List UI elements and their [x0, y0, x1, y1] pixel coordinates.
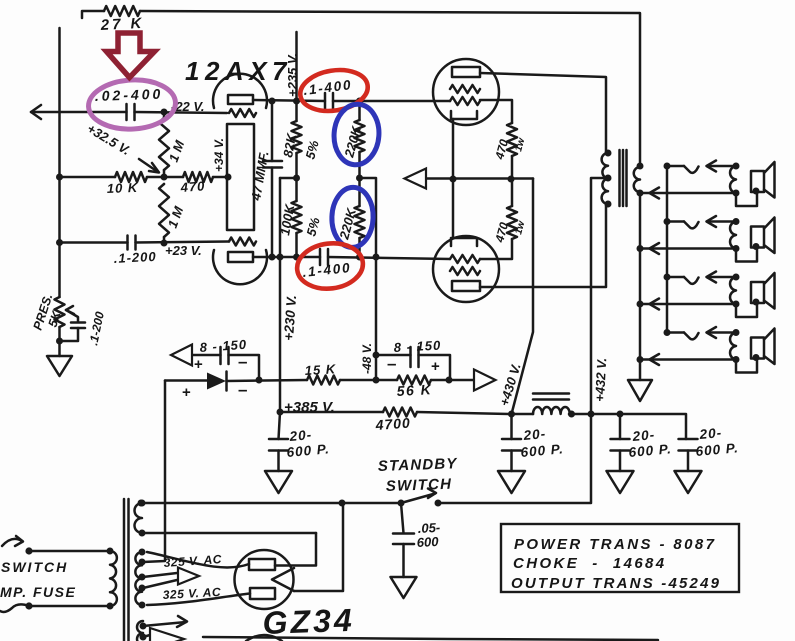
svg-text:-48 V.: -48 V. [360, 343, 374, 374]
svg-text:20-: 20- [522, 426, 547, 443]
svg-text:+385 V.: +385 V. [284, 399, 335, 416]
svg-text:+: + [182, 384, 191, 401]
svg-text:10 K: 10 K [107, 180, 140, 196]
svg-text:8 - 150: 8 - 150 [393, 338, 441, 355]
svg-text:–: – [238, 380, 247, 399]
svg-text:20-: 20- [698, 425, 723, 442]
svg-text:–: – [238, 352, 247, 371]
svg-text:20-: 20- [288, 427, 313, 444]
svg-text:+235 V.: +235 V. [285, 53, 300, 97]
svg-text:OUTPUT TRANS -45249: OUTPUT TRANS -45249 [511, 575, 721, 592]
svg-text:15 K: 15 K [304, 361, 337, 378]
svg-text:+34 V.: +34 V. [212, 138, 226, 172]
svg-text:MP. FUSE: MP. FUSE [0, 584, 76, 600]
svg-text:+432 V.: +432 V. [592, 357, 609, 402]
svg-text:470: 470 [179, 178, 206, 195]
svg-text:+230 V.: +230 V. [281, 295, 299, 342]
svg-text:20-: 20- [631, 427, 656, 444]
svg-text:SWITCH: SWITCH [386, 476, 453, 495]
svg-text:600: 600 [416, 534, 439, 550]
svg-text:STANDBY: STANDBY [378, 455, 459, 475]
svg-text:+23 V.: +23 V. [165, 243, 202, 258]
svg-text:POWER TRANS - 8087: POWER TRANS - 8087 [514, 536, 716, 553]
svg-text:+: + [431, 358, 440, 375]
svg-text:56 K: 56 K [396, 381, 432, 399]
svg-text:4700: 4700 [374, 415, 411, 433]
svg-text:SWITCH: SWITCH [1, 559, 68, 575]
svg-text:CHOKE - 14684: CHOKE - 14684 [513, 555, 667, 572]
svg-text:12AX7: 12AX7 [185, 56, 292, 86]
svg-text:.1-200: .1-200 [113, 249, 157, 266]
svg-text:+: + [194, 356, 203, 373]
svg-text:–: – [387, 354, 396, 373]
svg-text:GZ34: GZ34 [262, 602, 355, 641]
